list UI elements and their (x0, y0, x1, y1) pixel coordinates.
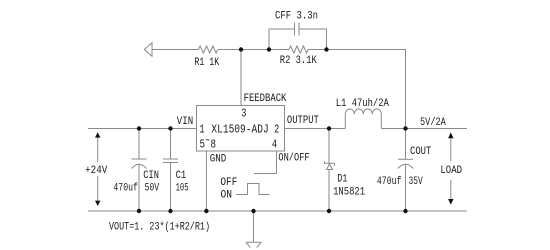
svg-text:OUTPUT: OUTPUT (287, 115, 319, 127)
svg-text:C1: C1 (176, 170, 187, 182)
svg-text:LOAD: LOAD (440, 165, 462, 177)
svg-text:GND: GND (210, 153, 227, 165)
svg-text:5˜8: 5˜8 (200, 137, 217, 151)
svg-text:D1: D1 (337, 173, 347, 185)
svg-text:VOUT=1. 23*(1+R2/R1): VOUT=1. 23*(1+R2/R1) (109, 221, 210, 233)
svg-text:470uf: 470uf (377, 176, 402, 188)
svg-text:FEEDBACK: FEEDBACK (244, 93, 287, 105)
svg-text:ON/OFF: ON/OFF (278, 153, 309, 165)
svg-text:R2 3.1K: R2 3.1K (280, 55, 317, 67)
svg-text:CFF 3.3n: CFF 3.3n (275, 10, 318, 22)
svg-text:1N5821: 1N5821 (333, 186, 365, 198)
svg-text:105: 105 (176, 182, 189, 194)
svg-text:+24V: +24V (85, 165, 108, 177)
svg-text:L1 47uh/2A: L1 47uh/2A (336, 98, 389, 110)
svg-text:COUT: COUT (410, 146, 432, 158)
svg-text:5V/2A: 5V/2A (420, 117, 446, 129)
svg-text:OFF: OFF (220, 177, 237, 189)
svg-text:CIN: CIN (143, 170, 159, 182)
svg-text:3: 3 (241, 107, 246, 121)
svg-text:35V: 35V (409, 176, 423, 188)
svg-text:XL1509-ADJ: XL1509-ADJ (211, 122, 268, 136)
svg-text:R1 1K: R1 1K (194, 57, 219, 69)
svg-text:4: 4 (272, 137, 277, 151)
svg-text:470uf: 470uf (113, 182, 137, 194)
svg-text:VIN: VIN (177, 116, 193, 128)
svg-text:50V: 50V (145, 182, 160, 194)
svg-text:2: 2 (274, 122, 279, 136)
svg-text:ON: ON (221, 190, 233, 202)
svg-text:1: 1 (199, 122, 204, 136)
